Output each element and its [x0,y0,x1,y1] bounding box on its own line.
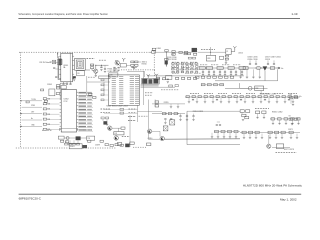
svg-text:R3355: R3355 [164,102,169,104]
signal rows below connector [101,108,110,110]
box right of U3303 [220,56,224,59]
caps below Q3302 [113,66,115,69]
caps right rows [180,114,182,116]
box FL3301 [120,64,126,67]
wire y87 to box [141,86,175,88]
dark component K3301 [165,61,168,65]
cluster row y112-118 [162,113,166,115]
parts right of U3303 [225,55,228,57]
boxes at 155-162 y101-107 [155,101,159,103]
svg-text:F3301: F3301 [70,146,75,148]
box D3301 [109,73,118,77]
shield border dashed bottom-mid [83,147,117,149]
vertical wire x130 [129,115,131,147]
bypass caps right of U3301 bottom [73,76,76,78]
svg-text:PWR: PWR [31,105,35,107]
wire left pin bus U3301 [58,56,60,78]
left lower row parts [41,89,44,91]
svg-text:C3345: C3345 [47,84,52,86]
svg-text:J2: J2 [226,51,228,53]
coupler termination box [77,71,85,76]
filter row 3 parts [201,84,205,86]
part R3341 above line [152,48,156,50]
feedback wire frame [187,111,240,144]
junction dots rf path [95,65,96,66]
connector J3302 pin column 1 [112,77,116,104]
svg-text:CONN 16 PIN: CONN 16 PIN [107,71,118,73]
labels under U3302 left [42,129,51,131]
bias network long row [185,96,300,98]
wires driver [112,127,121,129]
IC U3301 RF power module [61,53,73,82]
row y131 grounds [211,133,213,137]
svg-text:C3371: C3371 [288,129,293,131]
text row y108 [255,108,269,110]
vertical branch x166 [165,52,167,67]
wire cluster to chain [138,61,141,63]
svg-text:A+: A+ [281,67,283,70]
transistor Q3302 [115,60,119,65]
shield dashed vertical mid x154 [153,52,155,70]
bottom cluster parts 2 [88,140,91,142]
cluster L3303 C3308 [131,61,134,63]
svg-text:Schematics, Component Location: Schematics, Component Location Diagrams,… [18,12,108,16]
shield dashed vertical x154 lower [154,70,156,76]
box X label [99,76,110,79]
parts below bus [156,77,159,79]
box R3331 sense [255,86,264,91]
chain box pair 1 [179,51,182,53]
svg-text:A+: A+ [31,117,33,120]
svg-text:1-19: 1-19 [291,12,297,16]
row y131 parts [215,130,219,132]
vertical wire x155 [154,100,156,107]
parts text right of hybrid [161,89,178,91]
wire up from U3303 [210,47,212,55]
IC U3301 inner divider [69,53,71,82]
cluster K9V parts [290,97,293,99]
wire right of connector [143,71,145,105]
transistor Q3304 [267,144,271,148]
dark part y137 [76,136,81,140]
svg-text:R3361 C3362: R3361 C3362 [272,112,282,114]
antenna connector part [226,49,231,55]
labels near detector [87,58,95,60]
svg-text:C3399: C3399 [95,144,100,146]
svg-text:PCIC: PCIC [64,101,69,103]
antenna symbol left [147,74,150,77]
crystal box 2 [163,126,168,131]
vertical line right of rows [137,105,139,122]
wire control row [187,110,240,112]
text right of Q3306 [122,136,130,138]
svg-text:GND: GND [31,124,35,126]
filter chain right segment [243,67,248,70]
box pair right of Q3305 [121,127,125,129]
label above relay wire [201,49,215,51]
frame wire left of U3302 [59,83,61,100]
svg-text:Q3310: Q3310 [148,138,153,140]
chain parts group 2 [172,51,175,53]
box on dashed border [69,144,82,149]
svg-text:C3347 R3348: C3347 R3348 [167,59,177,61]
svg-text:9.3V: 9.3V [289,94,293,96]
box VR3301 [276,144,283,149]
shield border dashed left [19,52,21,148]
cap pair mid [216,124,218,127]
current sense row [225,87,268,89]
circle part [66,137,69,140]
part on line x166 [165,50,168,52]
svg-text:L33: L33 [115,133,118,135]
filter row 2 parts [195,76,199,78]
rows 3 and 4 below connector [128,116,136,118]
bottom cluster parts 1 [60,140,63,142]
box small above U3302 [61,86,66,89]
wire frame left final [149,131,161,139]
transistor Q3305 driver [108,126,112,130]
U3302 left components [43,98,46,100]
control network cluster rows [172,63,175,64]
svg-text:68P81076C20-C: 68P81076C20-C [19,197,42,201]
svg-text:DET: DET [31,112,34,114]
svg-text:5V: 5V [289,116,292,118]
ground Q3301 [95,73,97,75]
filter row 1 ground drops [202,69,204,71]
dark bits right of box [82,145,87,148]
wire connector top feed [127,71,144,77]
svg-text:TX EN: TX EN [31,99,35,101]
U3302 right pin labels [79,92,86,93]
svg-text:L3341: L3341 [156,48,161,50]
svg-text:U33: U33 [207,58,210,60]
transistor Q3303 pass device [263,66,268,70]
wire arrow to shield [57,52,59,58]
left IO row at y103 parts [26,101,29,103]
antenna symbol mid [155,74,158,77]
bus under IC1 to right [87,76,93,96]
wires final stage [148,100,150,130]
directional coupler L3301 nested striplines [75,58,86,70]
svg-text:T33: T33 [88,138,91,140]
harmonic filter FL3302 dark [192,48,197,52]
box right of hybrid [166,76,172,80]
svg-text:HLN9772D 800 MHz 20-Watt PA Sc: HLN9772D 800 MHz 20-Watt PA Schematic [243,184,303,188]
antenna stub symbol [122,58,125,61]
output wire to filter [164,138,240,140]
wire out with label [272,147,290,149]
svg-text:R3351 C3352: R3351 C3352 [193,111,203,113]
output network row [240,132,300,134]
parts at 88-96 93-100 [89,93,92,95]
transistor Q3306 driver [114,136,118,140]
capacitors under U3301 [63,82,65,84]
box U3303 regulator [206,55,215,61]
parts row y111 mid [256,111,260,114]
bottom cluster parts 3 [117,143,122,146]
svg-text:R33: R33 [255,88,258,90]
svg-text:B+: B+ [300,96,302,98]
right cluster boxes [240,110,244,113]
texture bus below hybrid [141,83,159,85]
low pass filter chain row 1 [199,67,280,69]
control cluster text specks [172,61,179,63]
wire loop under U3302 [59,128,77,131]
cluster under rows [101,117,104,119]
capacitor C3301 [55,76,57,79]
row y137 box [58,136,64,139]
bus wire y76 [147,75,244,77]
wire y138.5 [64,137,87,139]
parts under driver [105,144,108,146]
chain box pair 2 [184,51,187,53]
junction dots cluster [176,64,177,65]
wire chain to antenna relay [198,51,226,53]
step wire right [240,83,248,88]
box y136 right [87,136,95,140]
svg-text:R3377 C3378: R3377 C3378 [284,149,294,151]
wire row to control [138,110,163,112]
svg-text:RF IN 50mW: RF IN 50mW [40,62,52,64]
bottom cluster parts 4 [147,143,151,146]
component row y118 right [271,118,275,120]
bottom right text row [276,152,297,154]
shield dashed horizontal y70 [121,69,154,71]
transistor Q3308 final [160,136,164,140]
caps right of Q3301 [100,66,102,69]
svg-text:R3345 C3346: R3345 C3346 [167,57,177,59]
svg-text:C3341 R3342 C3343: C3341 R3342 C3343 [260,94,276,96]
drops under row y137 [65,140,67,143]
cntl volt text [145,92,153,94]
footer rule [19,193,302,196]
attenuator pad AT3301 [58,59,61,65]
shield border dashed bottom segment 3 [133,146,146,148]
connector J3302 pin column 4 [135,77,139,104]
dark cluster hybrid block [142,79,147,84]
svg-text:C3318: C3318 [265,59,270,61]
thermistor circle [248,86,252,90]
feedback loop wire [241,71,265,81]
pill box L3320 [114,132,124,135]
antenna symbol ANT [233,46,236,49]
svg-text:May 1, 2002: May 1, 2002 [280,197,297,201]
filter row drops right [240,69,242,76]
header rule [18,17,300,20]
svg-text:T/R: T/R [171,55,174,57]
svg-text:L3315: L3315 [238,52,243,54]
output row grounds [243,134,245,138]
shield border dashed top [19,51,150,53]
filter row1 labels [200,64,208,66]
bias row labels [190,93,199,95]
junction dots mid [133,67,134,68]
text 1-R [83,129,92,131]
wire Q3301 collector [95,65,97,69]
transistor Q3307 final [147,129,151,133]
parts above Q3301 [90,64,93,66]
connector J3301 [52,60,55,64]
connector J3302 pin column 2 [119,77,123,104]
wire row y119 [270,118,300,120]
svg-text:R3321 R3322 C3323 C3324: R3321 R3322 C3323 C3324 [106,106,127,108]
IC U3302 power control [61,90,76,132]
wire y104 [152,103,185,105]
connector J3302 outer [109,75,140,105]
connector J3302 pin column 3 [130,77,134,104]
svg-text:R3: R3 [77,73,79,75]
caps under bias row [192,98,194,101]
diode D3305 and arrow out [270,67,275,69]
crystal box [170,120,175,125]
text right R3329 [139,115,148,117]
bias row ground drops [188,98,190,102]
transistor Q3301 detector [94,69,98,73]
wire coupler out [85,69,90,71]
parts under FL3302 [184,53,187,55]
connector left edge parts [101,79,104,81]
shield border dashed bottom-left [16,147,69,149]
chain part group 1 [152,51,156,53]
caps left of U3301 [53,61,55,64]
svg-text:R3310: R3310 [142,64,147,66]
drops under y104 wire [170,104,172,107]
caps under cluster [164,118,166,121]
wire input to IC U3301 [57,65,59,80]
